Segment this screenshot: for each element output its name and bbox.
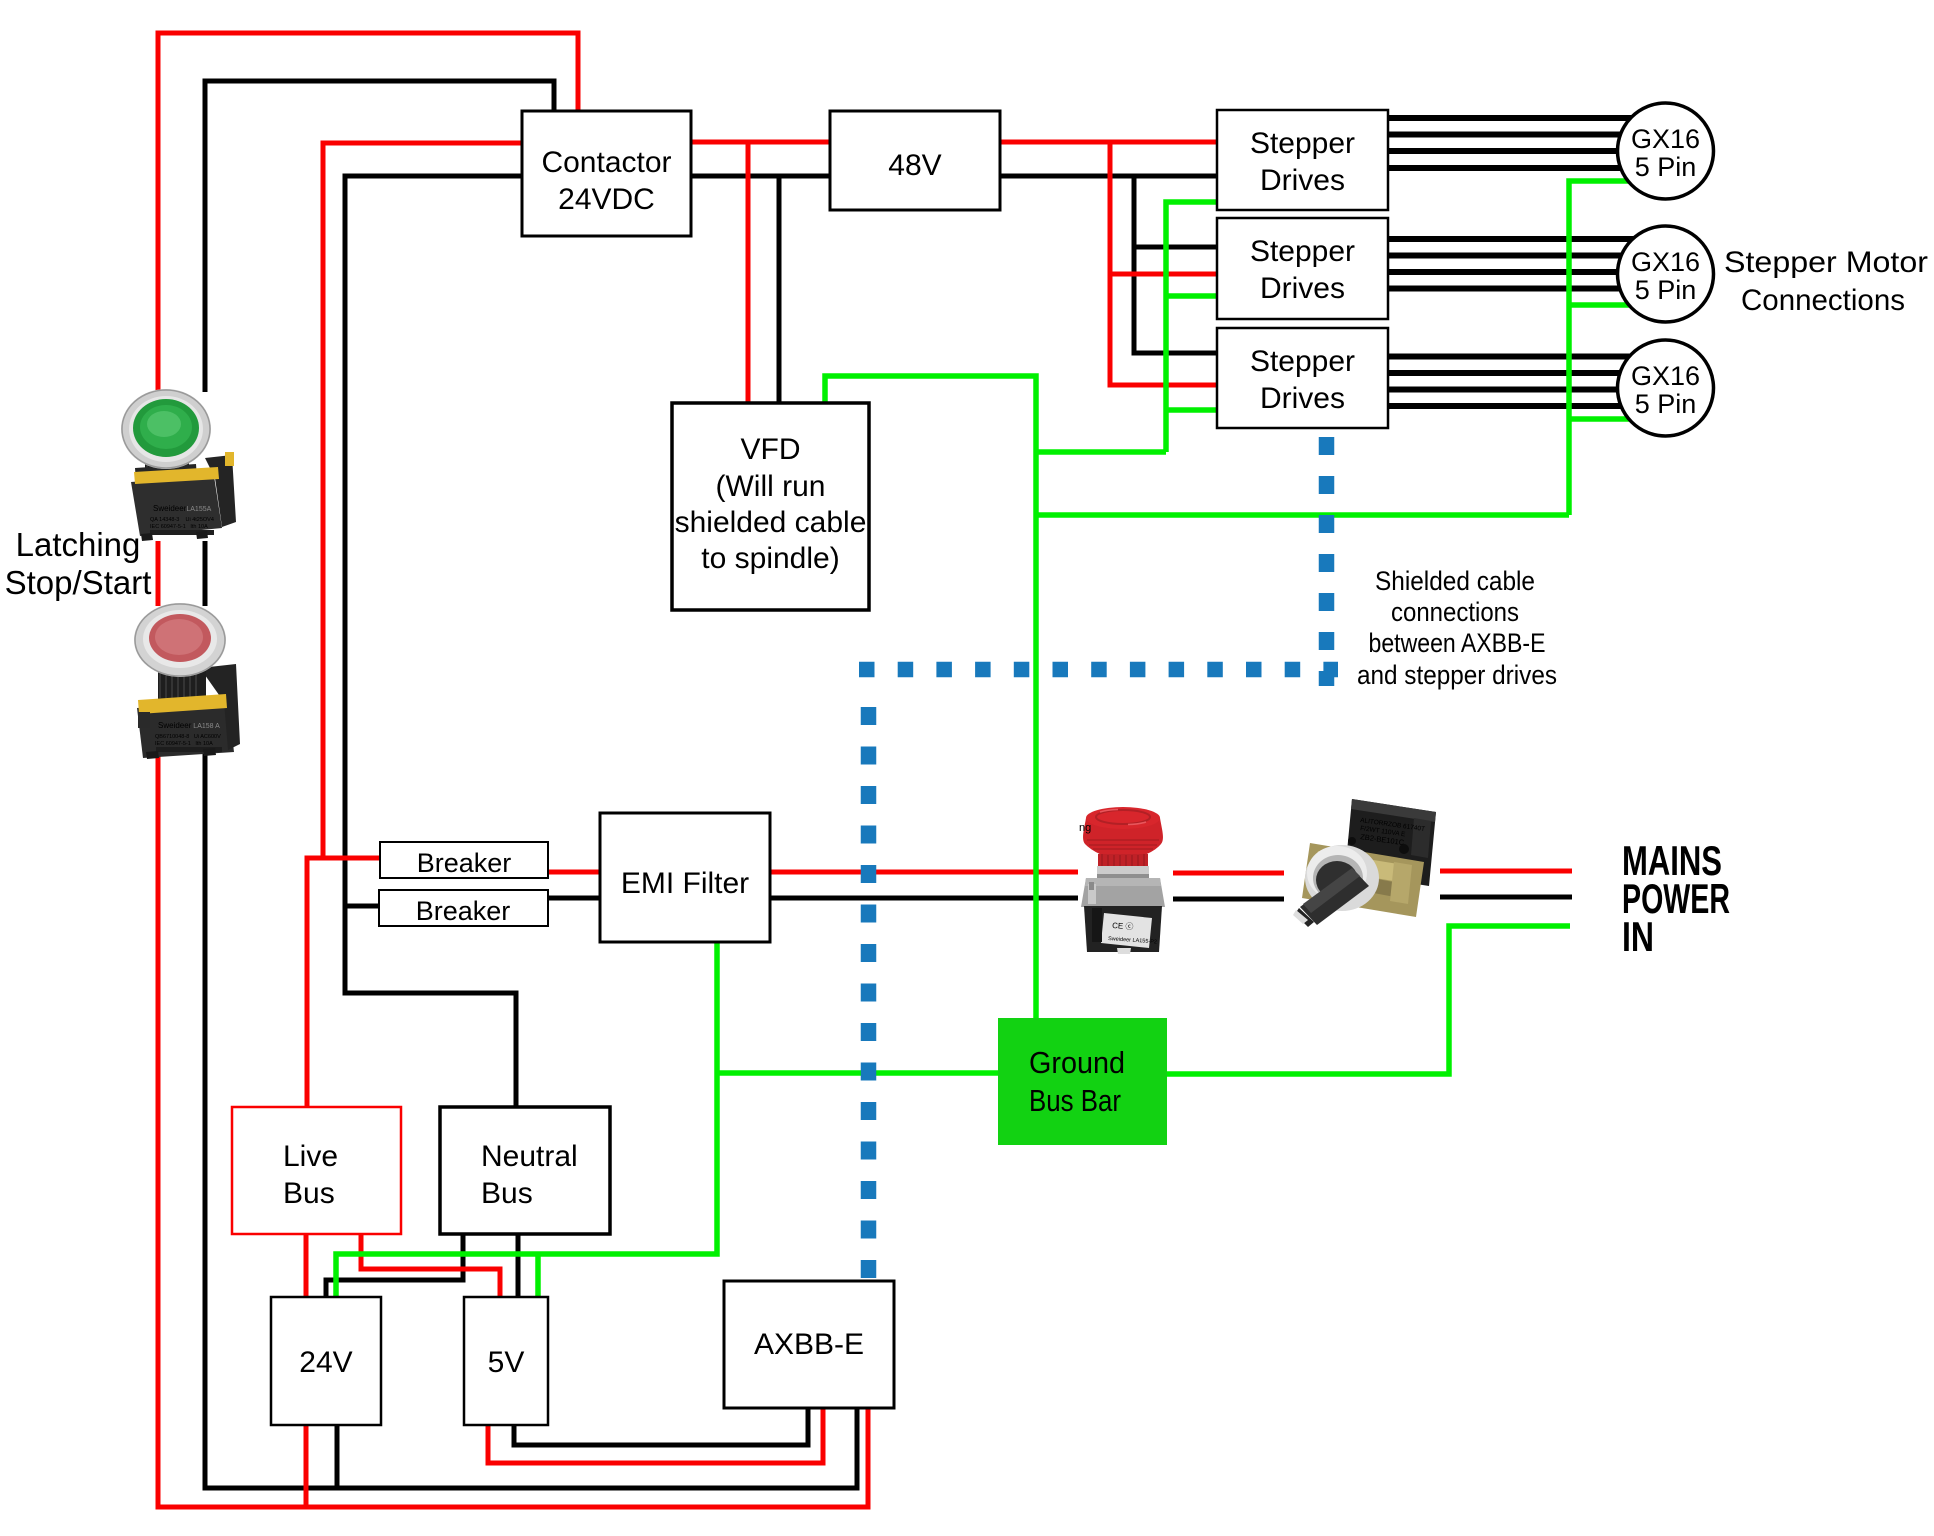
svg-text:IEC 60947-5-1 Ith 10A: IEC 60947-5-1 Ith 10A xyxy=(155,741,213,747)
svg-text:Live: Live xyxy=(283,1140,338,1173)
svg-text:Breaker: Breaker xyxy=(417,848,512,878)
svg-text:CE ⓒ: CE ⓒ xyxy=(1112,921,1134,931)
svg-text:to spindle): to spindle) xyxy=(701,542,839,575)
svg-text:Connections: Connections xyxy=(1741,284,1905,317)
svg-text:(Will run: (Will run xyxy=(716,470,826,503)
svg-text:Bus: Bus xyxy=(481,1177,533,1210)
svg-text:QB6710048-8 Ui AC600V: QB6710048-8 Ui AC600V xyxy=(155,734,221,740)
svg-text:IN: IN xyxy=(1622,913,1654,960)
svg-text:Latching: Latching xyxy=(16,526,141,563)
svg-text:Drives: Drives xyxy=(1260,272,1345,305)
svg-text:Bus: Bus xyxy=(283,1177,335,1210)
svg-text:Drives: Drives xyxy=(1260,164,1345,197)
svg-text:Drives: Drives xyxy=(1260,382,1345,415)
svg-text:Contactor: Contactor xyxy=(541,146,671,179)
svg-text:GX16: GX16 xyxy=(1631,124,1700,154)
svg-text:VFD: VFD xyxy=(741,433,801,466)
svg-text:5V: 5V xyxy=(488,1346,525,1379)
svg-text:24V: 24V xyxy=(299,1346,352,1379)
svg-text:shielded cable: shielded cable xyxy=(675,506,867,539)
svg-text:Breaker: Breaker xyxy=(416,896,511,926)
svg-text:Stop/Start: Stop/Start xyxy=(5,564,152,601)
svg-text:Stepper: Stepper xyxy=(1250,127,1355,160)
svg-text:Neutral: Neutral xyxy=(481,1140,578,1173)
svg-text:QA 14348-3 Ui 4t25OV4: QA 14348-3 Ui 4t25OV4 xyxy=(150,517,214,523)
svg-text:connections: connections xyxy=(1391,597,1519,627)
svg-text:Ground: Ground xyxy=(1029,1045,1125,1080)
svg-text:GX16: GX16 xyxy=(1631,361,1700,391)
svg-text:Stepper: Stepper xyxy=(1250,235,1355,268)
svg-text:and stepper drives: and stepper drives xyxy=(1357,660,1557,690)
svg-text:between AXBB-E: between AXBB-E xyxy=(1369,628,1546,658)
svg-text:AXBB-E: AXBB-E xyxy=(754,1328,864,1361)
svg-text:5 Pin: 5 Pin xyxy=(1635,389,1697,419)
svg-text:24VDC: 24VDC xyxy=(558,183,655,216)
svg-text:Stepper: Stepper xyxy=(1250,345,1355,378)
svg-text:5 Pin: 5 Pin xyxy=(1635,152,1697,182)
svg-text:IEC 60947-5-1 Ith 10A: IEC 60947-5-1 Ith 10A xyxy=(150,524,208,530)
svg-text:GX16: GX16 xyxy=(1631,247,1700,277)
svg-text:5 Pin: 5 Pin xyxy=(1635,275,1697,305)
svg-text:Bus Bar: Bus Bar xyxy=(1029,1083,1121,1118)
svg-text:Stepper Motor: Stepper Motor xyxy=(1724,246,1928,279)
svg-text:Sweideer LA158 A: Sweideer LA158 A xyxy=(158,721,220,730)
svg-text:Shielded cable: Shielded cable xyxy=(1375,566,1535,596)
svg-text:48V: 48V xyxy=(888,149,941,182)
svg-text:EMI Filter: EMI Filter xyxy=(621,867,749,900)
svg-text:ng: ng xyxy=(1079,822,1091,834)
svg-text:SweideerLA155A: SweideerLA155A xyxy=(153,504,212,513)
